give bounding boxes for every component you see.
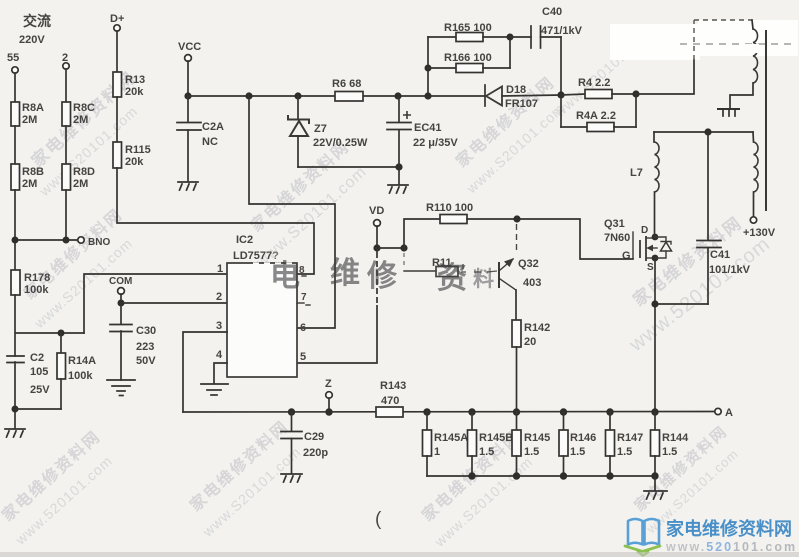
svg-text:7: 7 xyxy=(301,292,307,303)
svg-text:R110 100: R110 100 xyxy=(426,202,473,214)
wire xyxy=(65,126,67,164)
watermark top-center xyxy=(231,137,373,272)
ground under C29 xyxy=(281,474,302,482)
transformer primary winding xyxy=(752,20,758,83)
svg-text:D+: D+ xyxy=(110,13,124,25)
IC2 box xyxy=(227,234,297,377)
svg-text:R6 68: R6 68 xyxy=(332,78,361,90)
resistor R8C xyxy=(62,102,95,126)
terminal VD xyxy=(369,205,384,248)
wire pin1 net horizontal xyxy=(16,332,84,334)
wire xyxy=(116,97,118,142)
svg-text:COM: COM xyxy=(109,276,132,287)
transistor Q32 xyxy=(499,258,541,290)
svg-text:105: 105 xyxy=(30,366,48,378)
svg-text:220p: 220p xyxy=(303,447,328,459)
junction xyxy=(513,215,520,222)
svg-text:C30: C30 xyxy=(136,325,156,337)
pin 6 xyxy=(300,322,306,334)
resistor R144 xyxy=(651,412,690,458)
junction xyxy=(12,406,19,413)
wire pin4 to ground xyxy=(214,363,227,383)
wire bottom rail xyxy=(183,411,715,414)
wire pin1 riser xyxy=(84,274,227,333)
bottom scan band xyxy=(0,552,799,557)
resistor R110 xyxy=(426,202,473,224)
svg-text:Q31: Q31 xyxy=(604,218,625,230)
svg-text:R144: R144 xyxy=(662,432,689,444)
junction VCC rail xyxy=(184,92,191,99)
svg-text:1.5: 1.5 xyxy=(524,446,539,458)
svg-text:470: 470 xyxy=(381,395,399,407)
transformer core xyxy=(765,30,767,211)
pin 3 xyxy=(216,320,222,332)
terminal D+ xyxy=(110,13,124,31)
white nick on winding xyxy=(745,44,759,53)
wire EC41 bottom xyxy=(395,130,402,184)
svg-text:(: ( xyxy=(375,509,382,530)
wire to ground xyxy=(654,476,656,490)
capacitor C30 xyxy=(110,303,156,367)
resistor R143 xyxy=(376,380,406,417)
svg-text:R115: R115 xyxy=(125,144,151,156)
svg-text:R146: R146 xyxy=(570,432,596,444)
wire pin3 xyxy=(183,332,227,412)
resistor R146 xyxy=(559,412,596,458)
junction xyxy=(12,237,19,244)
wire xyxy=(60,379,62,409)
svg-text:Z7: Z7 xyxy=(314,123,327,135)
svg-text:R14A: R14A xyxy=(68,355,96,367)
pin 5 xyxy=(300,351,306,363)
capacitor C2 xyxy=(7,352,50,396)
svg-text:1.5: 1.5 xyxy=(617,446,632,458)
resistor R145 xyxy=(512,412,550,458)
terminal +130V xyxy=(743,192,776,239)
wire emitter down xyxy=(515,290,517,320)
resistor R4A xyxy=(561,94,636,132)
pin 4 xyxy=(216,349,223,361)
junction xyxy=(425,65,432,72)
junction xyxy=(651,300,658,307)
wire primary riser dashed remnant xyxy=(694,20,752,60)
resistor R8B xyxy=(11,164,44,190)
resistor R145A xyxy=(423,412,469,458)
junction xyxy=(632,90,639,97)
transformer secondary winding xyxy=(753,132,758,192)
svg-text:101/1kV: 101/1kV xyxy=(709,264,751,276)
mosfet Q31 xyxy=(640,225,657,273)
junction source xyxy=(652,255,659,262)
svg-text:20k: 20k xyxy=(125,86,144,98)
svg-text:A: A xyxy=(725,407,733,419)
svg-text:1: 1 xyxy=(217,263,223,275)
wire to transformer primary xyxy=(636,60,694,94)
svg-text:2: 2 xyxy=(216,291,222,303)
svg-text:50V: 50V xyxy=(136,355,156,367)
svg-text:R165 100: R165 100 xyxy=(444,22,492,34)
svg-text:R178: R178 xyxy=(24,272,50,284)
ground under C30 xyxy=(107,380,135,396)
junction xyxy=(424,92,431,99)
svg-text:5: 5 xyxy=(300,351,306,363)
svg-text:D18: D18 xyxy=(506,84,526,96)
terminal 2 xyxy=(62,52,69,69)
watermark left-middle xyxy=(10,205,144,332)
resistor R8D xyxy=(62,164,95,190)
wire C41 to source xyxy=(655,303,708,305)
svg-text:EC41: EC41 xyxy=(414,122,442,134)
remnant dashes xyxy=(680,43,796,45)
watermark top-left xyxy=(16,67,156,199)
resistor R14A xyxy=(57,333,96,382)
wire 55 line down xyxy=(14,73,16,102)
junction xyxy=(63,237,70,244)
svg-text:C41: C41 xyxy=(710,249,730,261)
wire xyxy=(377,247,404,249)
capacitor C41 xyxy=(697,132,751,304)
watermark right big xyxy=(604,207,774,357)
pin 1 xyxy=(217,263,223,275)
capacitor EC41 xyxy=(387,92,458,149)
svg-text:20: 20 xyxy=(524,336,536,348)
wire xyxy=(65,190,67,240)
resistor R142 xyxy=(512,320,550,348)
svg-text:NC: NC xyxy=(202,136,218,148)
resistor R11 xyxy=(404,257,458,277)
svg-text:R166 100: R166 100 xyxy=(444,52,492,64)
wire dashes to base xyxy=(461,264,497,272)
white patch top-right xyxy=(610,24,700,60)
svg-text:22V/0.25W: 22V/0.25W xyxy=(313,137,368,149)
dark watermark fragments center xyxy=(270,257,494,295)
pin 7 xyxy=(297,292,310,305)
ground under C2A xyxy=(178,182,198,190)
watermark bottom-left xyxy=(0,427,121,549)
node A xyxy=(715,407,733,419)
svg-text:403: 403 xyxy=(523,277,541,289)
mosfet Q31 labels xyxy=(604,218,633,262)
wire C2 to R14A bottom xyxy=(15,408,61,410)
resistor R178 xyxy=(11,270,50,296)
svg-text:1.5: 1.5 xyxy=(662,446,677,458)
resistor R8A xyxy=(11,102,44,126)
wire COM to pin2 xyxy=(121,302,227,304)
wire source down xyxy=(654,258,656,412)
svg-text:BNO: BNO xyxy=(88,237,110,248)
svg-text:VCC: VCC xyxy=(178,41,201,53)
svg-text:电: 电 xyxy=(270,260,300,293)
svg-text:R142: R142 xyxy=(524,322,550,334)
svg-text:R8C: R8C xyxy=(73,102,95,114)
node BNO xyxy=(78,237,111,248)
svg-text:R145B: R145B xyxy=(479,432,513,444)
svg-text:1.5: 1.5 xyxy=(570,446,585,458)
svg-text:471/1kV: 471/1kV xyxy=(541,25,583,37)
junction xyxy=(400,244,407,251)
svg-text:R143: R143 xyxy=(380,380,406,392)
svg-text:25V: 25V xyxy=(30,384,50,396)
svg-text:223: 223 xyxy=(136,341,154,353)
wire BNO horizontal xyxy=(15,239,78,241)
svg-text:C29: C29 xyxy=(304,431,324,443)
inductor L7 xyxy=(630,132,659,192)
wire R165 left riser xyxy=(427,37,429,96)
watermark top-mid-right xyxy=(444,73,575,197)
svg-text:VD: VD xyxy=(369,205,384,217)
wire R110 to gate corner xyxy=(467,219,633,259)
junction C29 xyxy=(288,408,295,415)
svg-text:L7: L7 xyxy=(630,167,643,179)
node COM xyxy=(109,276,132,307)
junction xyxy=(557,91,564,98)
watermark top-right pink xyxy=(551,24,656,121)
wire L7 to drain xyxy=(654,192,656,236)
svg-text:R145: R145 xyxy=(524,432,550,444)
wire VD to pin5 xyxy=(297,248,377,363)
junction xyxy=(507,34,514,41)
wire xyxy=(187,130,189,181)
svg-text:2M: 2M xyxy=(73,178,88,190)
wire xyxy=(14,362,16,428)
resistor R147 xyxy=(606,412,644,458)
resistor R166 xyxy=(428,37,510,73)
ground rake xyxy=(718,109,739,116)
svg-text:料: 料 xyxy=(473,268,494,291)
svg-text:C40: C40 xyxy=(542,6,562,18)
svg-text:7N60: 7N60 xyxy=(604,232,630,244)
wire Z7 to EC41 xyxy=(298,166,399,168)
svg-text:R4 2.2: R4 2.2 xyxy=(578,77,610,89)
wire collector dashes xyxy=(516,224,518,252)
ground under R144 xyxy=(644,491,667,499)
capacitor C29 xyxy=(281,412,328,473)
svg-text:220V: 220V xyxy=(19,34,45,46)
svg-text:R13: R13 xyxy=(125,74,145,86)
svg-text:3: 3 xyxy=(216,320,222,332)
svg-text:交流: 交流 xyxy=(23,13,51,29)
wire L7 top rail xyxy=(654,131,753,133)
resistor R13 xyxy=(113,72,145,98)
svg-text:22 μ/35V: 22 μ/35V xyxy=(413,137,458,149)
svg-text:R8A: R8A xyxy=(22,102,44,114)
svg-text:资: 资 xyxy=(437,262,467,295)
svg-text:2M: 2M xyxy=(22,114,37,126)
junction drain xyxy=(652,234,659,241)
svg-text:R8D: R8D xyxy=(73,166,95,178)
resistor R4 xyxy=(561,77,636,99)
svg-text:20k: 20k xyxy=(125,156,144,168)
wire C40 down xyxy=(560,37,562,95)
junction xyxy=(373,244,380,251)
svg-text:55: 55 xyxy=(7,52,19,64)
junction row bottom xyxy=(468,472,658,479)
junction xyxy=(704,128,711,135)
svg-text:家电维修资料网: 家电维修资料网 xyxy=(666,518,792,539)
svg-text:C2A: C2A xyxy=(202,121,224,133)
ground under C2 xyxy=(5,429,25,437)
svg-text:4: 4 xyxy=(216,349,223,361)
wire pin6 net xyxy=(249,96,335,328)
wire R11 base dashes xyxy=(403,253,405,266)
svg-text:R145A: R145A xyxy=(434,432,468,444)
wire riser to R110 xyxy=(404,219,440,248)
svg-text:2M: 2M xyxy=(22,178,37,190)
svg-text:R147: R147 xyxy=(617,432,643,444)
wire 2 line down xyxy=(65,69,67,102)
logo book icon xyxy=(625,519,660,556)
svg-text:Z: Z xyxy=(325,378,332,390)
svg-text:FR107: FR107 xyxy=(505,98,538,110)
svg-text:C2: C2 xyxy=(30,352,44,364)
resistor R115 xyxy=(113,142,151,168)
wire xyxy=(120,331,122,380)
resistor R6 xyxy=(332,78,363,101)
svg-text:IC2: IC2 xyxy=(236,234,253,246)
wire primary to ground xyxy=(730,83,753,108)
wire R115 to pin8 net xyxy=(117,168,314,274)
svg-text:1: 1 xyxy=(434,446,440,458)
svg-text:R8B: R8B xyxy=(22,166,44,178)
IC top edge dashes xyxy=(253,262,293,264)
wire xyxy=(14,190,16,270)
watermark bottom-left2 xyxy=(179,417,309,541)
svg-text:2M: 2M xyxy=(73,114,88,126)
zener Z7 xyxy=(288,96,368,167)
watermark bottom-center xyxy=(411,427,541,551)
svg-text:100k: 100k xyxy=(68,370,93,382)
wire xyxy=(116,31,118,72)
wire bank bottom rail xyxy=(427,456,655,476)
resistor R145B xyxy=(468,412,514,458)
svg-text:G: G xyxy=(622,250,631,262)
logo text xyxy=(665,518,797,554)
svg-text:Q32: Q32 xyxy=(518,258,539,270)
svg-text:S: S xyxy=(647,262,654,273)
capacitor C40 xyxy=(510,6,583,48)
svg-text:1.5: 1.5 xyxy=(479,446,494,458)
svg-text:R4A 2.2: R4A 2.2 xyxy=(576,110,616,122)
svg-text:D: D xyxy=(641,225,648,236)
svg-text:修: 修 xyxy=(366,260,398,293)
junction R14A top xyxy=(58,330,65,337)
svg-text:www.520101.com: www.520101.com xyxy=(665,540,797,554)
svg-text:维: 维 xyxy=(330,257,360,290)
watermark bottom-right xyxy=(625,422,746,537)
label 交流220V xyxy=(19,13,51,46)
body zener of Q31 xyxy=(655,237,672,258)
terminal VCC xyxy=(178,41,201,61)
node Z xyxy=(325,378,333,416)
junction row top xyxy=(423,408,658,415)
junction pin6 net xyxy=(245,92,252,99)
terminal 55 xyxy=(7,52,19,73)
wire VCC rail xyxy=(188,95,485,97)
svg-text:6: 6 xyxy=(300,322,306,334)
ground pin4 xyxy=(201,384,228,395)
resistor R165 xyxy=(428,22,510,42)
pin 2 xyxy=(216,291,222,303)
junction Z7 xyxy=(294,92,301,99)
svg-text:+130V: +130V xyxy=(743,227,776,239)
capacitor C2A xyxy=(177,96,224,148)
wire xyxy=(516,347,518,412)
wire xyxy=(14,295,16,356)
svg-text:100k: 100k xyxy=(24,284,49,296)
wire xyxy=(187,61,189,96)
diode D18 FR107 xyxy=(485,84,561,110)
ground under EC41 xyxy=(388,185,408,193)
pin 8 xyxy=(299,265,306,276)
wire xyxy=(14,126,16,164)
